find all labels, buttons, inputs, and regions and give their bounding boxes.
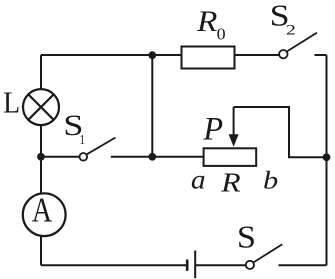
wire middle vertical (node C to node D) (151, 55, 153, 157)
svg-text:1: 1 (80, 132, 86, 147)
wire left vertical (lamp to node B) (40, 125, 42, 157)
resistor R0 (182, 47, 235, 69)
wire slider P to right vertical (234, 107, 327, 157)
wire bottom middle (battery to switch S) (195, 264, 246, 266)
node B junction dot (37, 153, 45, 161)
wire middle horizontal left (node B to switch S1) (41, 156, 80, 158)
slider P arrow (229, 107, 239, 147)
wire bottom right (switch S to right corner) (279, 264, 327, 266)
lamp L (23, 89, 59, 125)
switch S2 (279, 33, 317, 59)
svg-text:b: b (263, 165, 278, 194)
svg-text:P: P (202, 110, 223, 146)
svg-text:L: L (3, 86, 20, 120)
node C junction dot (148, 51, 156, 59)
wire bottom left (corner to battery) (41, 264, 187, 266)
svg-text:a: a (191, 163, 206, 194)
svg-text:R: R (220, 167, 241, 198)
switch S (246, 244, 283, 269)
node E junction dot (323, 153, 331, 161)
wire top-right segment (resistor to switch S2) (235, 54, 280, 56)
wire right vertical (326, 55, 328, 265)
svg-text:S: S (237, 220, 256, 255)
rheostat R (204, 148, 257, 166)
svg-text:0: 0 (217, 25, 226, 44)
wire top-right corner stub (315, 54, 327, 56)
wire left vertical (top corner to lamp) (40, 55, 42, 90)
svg-text:2: 2 (286, 23, 296, 39)
wire left vertical (node B to ammeter) (40, 157, 42, 195)
switch S1 (80, 138, 116, 161)
svg-text:R: R (196, 6, 218, 38)
ammeter A (23, 193, 66, 236)
node D junction dot (148, 153, 156, 161)
wire left vertical (ammeter to bottom corner) (40, 235, 42, 265)
wire top-left horizontal (41, 54, 182, 56)
battery (187, 251, 195, 279)
svg-text:A: A (32, 192, 52, 230)
wire middle horizontal right (switch S1 to rheostat R) (111, 156, 204, 158)
